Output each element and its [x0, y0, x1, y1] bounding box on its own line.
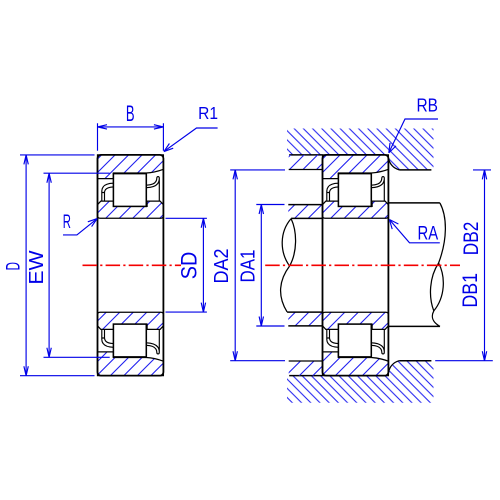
svg-text:R1: R1 [198, 103, 218, 123]
dimension DA1: dimension line with arrows [260, 205, 262, 327]
dimension D: dimension line with arrows [25, 155, 27, 376]
svg-text:R: R [63, 212, 71, 233]
leader R [63, 219, 97, 235]
svg-text:DA2: DA2 [210, 249, 233, 284]
housing fillet RB (top right) [388, 158, 399, 170]
dimension SD: extension lines [166, 218, 207, 312]
outer ring locating ring, top (hatched) [289, 155, 323, 170]
svg-text:B: B [126, 101, 135, 126]
cage, bottom-right strip [146, 330, 159, 354]
dimension DA2: extension lines [230, 170, 285, 361]
housing bore line (bottom, left of bearing) [289, 375, 322, 377]
inner ring top section (hatched) [98, 201, 164, 218]
dimension D: extension lines [20, 155, 95, 376]
leader R1 [164, 128, 217, 151]
dimension DB1/DB2: dimension line with arrows [484, 170, 486, 361]
cage, top-left strip [102, 183, 114, 201]
dimension EW: extension lines [44, 173, 110, 357]
housing fillet (bottom right) [388, 361, 399, 373]
svg-text:D: D [2, 262, 24, 271]
dimension B: extension lines [98, 123, 164, 151]
centerline right view [265, 264, 460, 266]
housing bottom block (hatched) [287, 361, 434, 403]
svg-text:RA: RA [418, 224, 439, 245]
dimension DB1/DB2: extension lines [435, 170, 493, 361]
svg-text:RB: RB [417, 96, 439, 116]
right view bearing [323, 155, 389, 376]
roller (top) [113, 174, 146, 207]
dimension DA2: dimension line with arrows [234, 170, 236, 361]
shaft seat line (bottom left) [287, 311, 322, 313]
housing top block (hatched) [287, 129, 434, 170]
svg-text:SD: SD [176, 252, 201, 280]
shaft abutment sleeve, bottom (hatched) [288, 312, 322, 326]
housing shoulder bore (bottom right) [399, 360, 431, 362]
leader RB [389, 119, 438, 152]
housing shoulder bore (top right) [399, 169, 431, 171]
dimension DA1: extension lines [256, 205, 284, 327]
shaft shoulder bottom line (right of bearing) [388, 325, 440, 327]
dimension EW: dimension line with arrows [48, 173, 50, 357]
centerline left view [83, 264, 182, 266]
roller (bottom) [113, 324, 146, 357]
dimension SD: dimension line with arrows [202, 218, 204, 312]
svg-text:EW: EW [26, 250, 48, 284]
leader RA [390, 220, 440, 243]
outer ring bottom section (hatched) [98, 352, 164, 376]
shaft abutment sleeve, top (hatched) [288, 205, 322, 219]
inner ring bottom section (hatched) [98, 312, 164, 329]
shaft shoulder top line (right of bearing) [388, 202, 440, 204]
outer ring locating ring, bottom (hatched) [289, 361, 323, 376]
housing bore line (top, left of bearing) [289, 154, 322, 156]
outer ring top section (hatched) [98, 155, 164, 179]
shaft seat line (top left) [291, 217, 322, 219]
cage, bottom-left strip [102, 330, 114, 348]
svg-text:DB1: DB1 [459, 273, 482, 308]
cage, top-right strip [146, 177, 159, 201]
svg-text:DB2: DB2 [460, 222, 483, 256]
dimension B: dimension line with arrows [98, 126, 164, 128]
shaft break (right) [430, 203, 445, 327]
svg-text:DA1: DA1 [237, 250, 260, 283]
bearing outline [98, 155, 164, 376]
shaft break (left) [281, 219, 296, 312]
